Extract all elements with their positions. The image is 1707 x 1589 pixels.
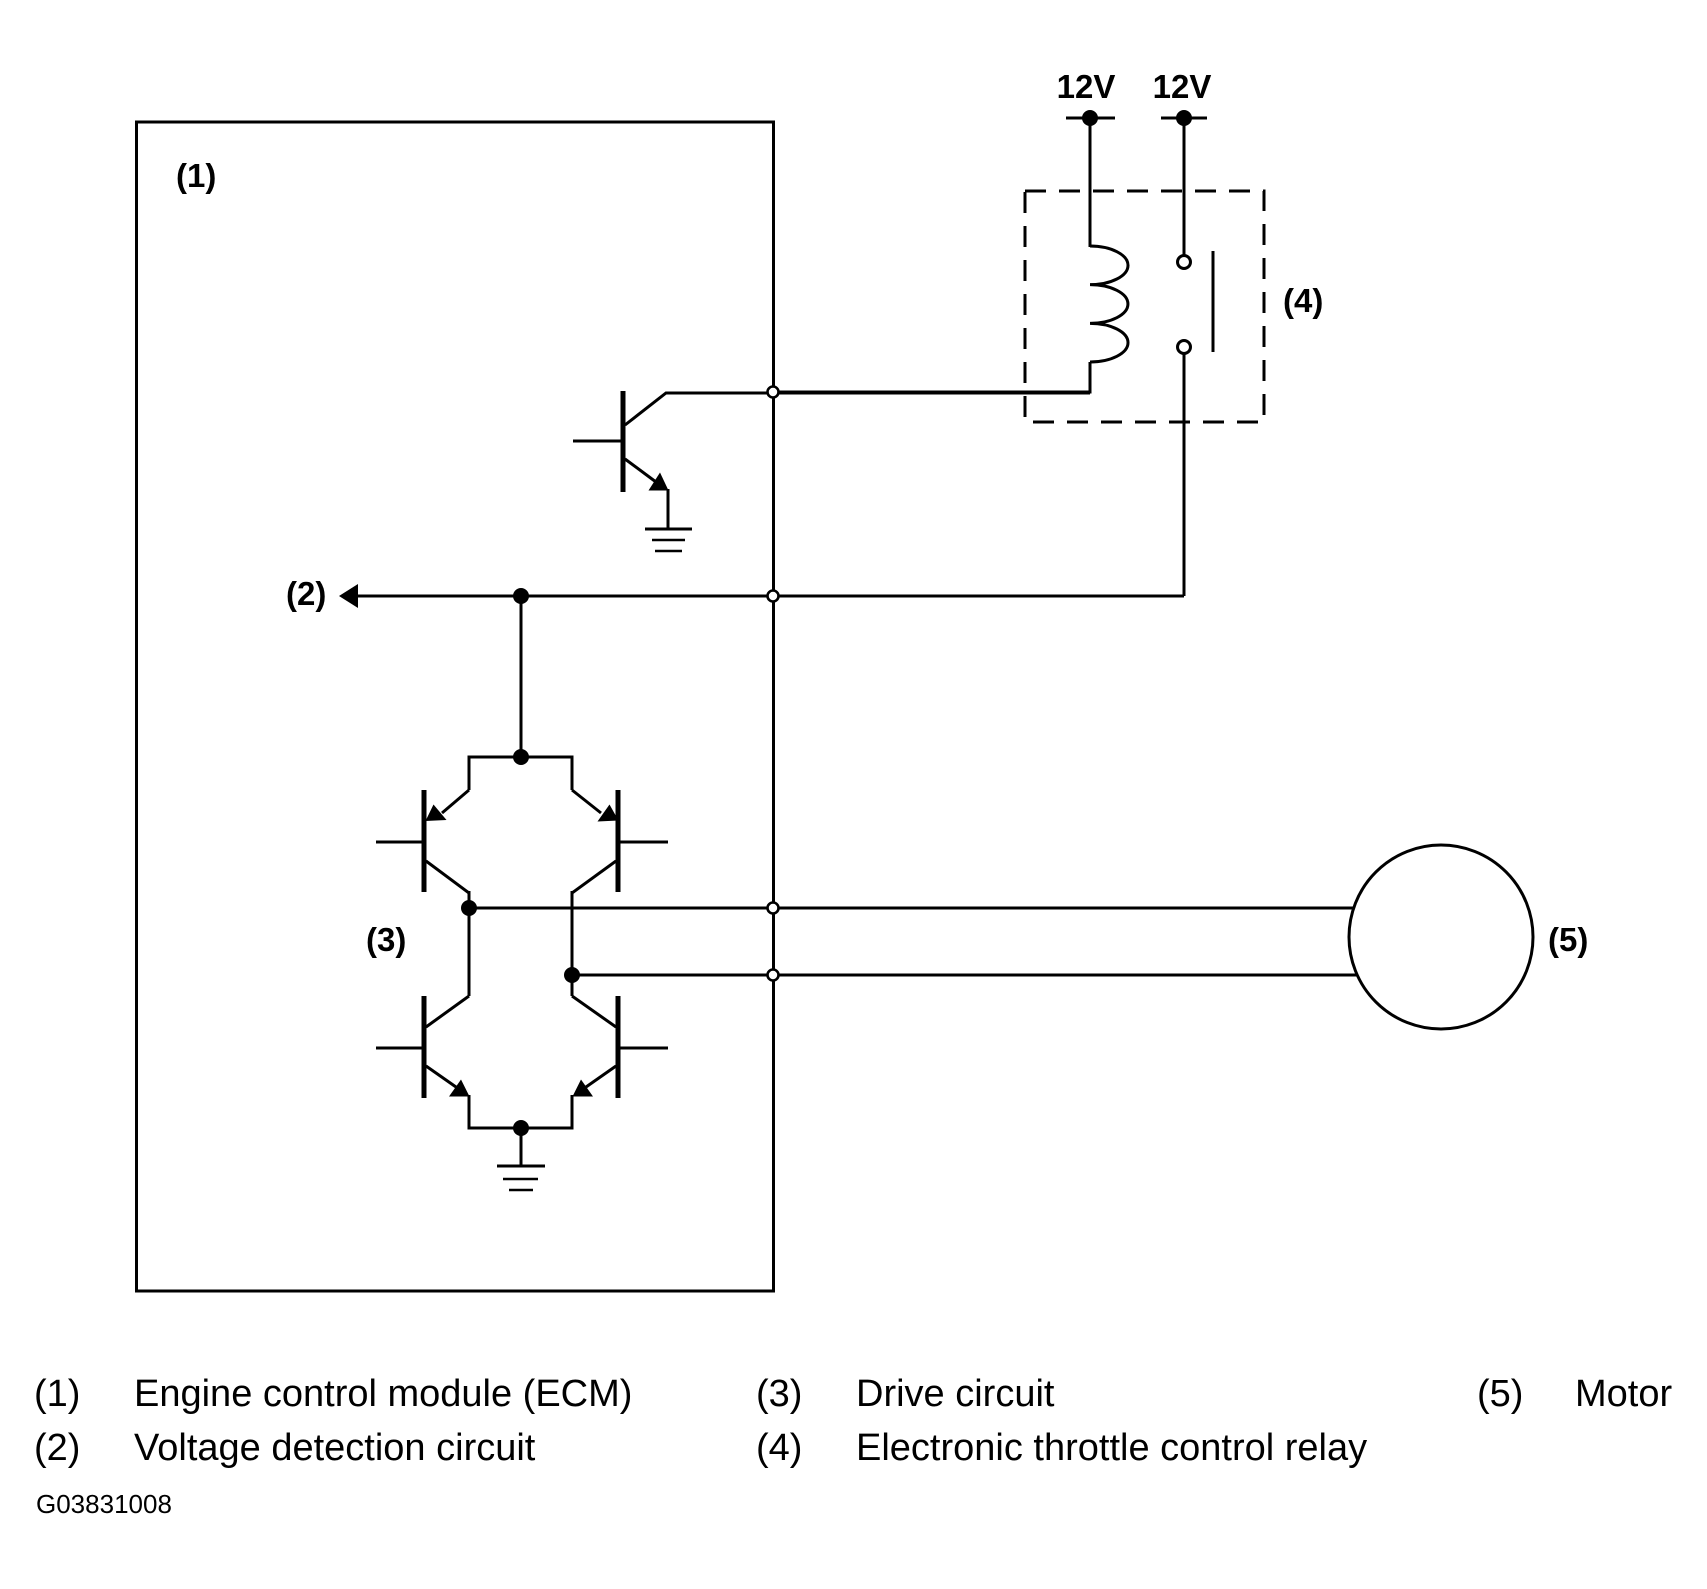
- label (2): [286, 575, 326, 612]
- transistor Q1 base bar: [621, 391, 626, 492]
- svg-text:Drive circuit: Drive circuit: [856, 1373, 1055, 1415]
- label (4): [1283, 282, 1323, 319]
- relay switch terminal circle bottom: [1178, 341, 1191, 354]
- svg-text:(4): (4): [1283, 282, 1323, 319]
- svg-text:Motor: Motor: [1575, 1373, 1672, 1415]
- transistor Q1 collector: [625, 393, 1090, 425]
- transistor Q4 collector: [426, 996, 469, 1027]
- wire top rail right drop: [571, 756, 574, 791]
- arrow to voltage detection circuit (2): [339, 584, 358, 608]
- wire node M1 to motor: [469, 907, 1360, 910]
- svg-text:(5): (5): [1548, 921, 1588, 958]
- transistor Q1 base lead: [573, 440, 625, 443]
- legend item 2 text: [134, 1427, 536, 1469]
- svg-text:(1): (1): [34, 1373, 80, 1415]
- wire bottom node to ground: [520, 1128, 523, 1166]
- H-bridge bottom rail: [469, 1127, 572, 1130]
- svg-text:12V: 12V: [1153, 68, 1212, 105]
- legend item 4 number: [756, 1427, 802, 1469]
- motor M1 circle: [1349, 845, 1533, 1029]
- relay switch terminal circle top: [1178, 256, 1191, 269]
- svg-text:12V: 12V: [1057, 68, 1116, 105]
- transistor Q5 base bar: [616, 996, 621, 1098]
- legend item 4 text: [856, 1427, 1367, 1469]
- wire 12V A to relay coil: [1089, 118, 1092, 247]
- ECM pin circle P4: [768, 970, 779, 981]
- ground G2: [497, 1166, 545, 1190]
- transistor Q5 emitter: [572, 1066, 616, 1130]
- wire Q2 collector to node M1: [468, 891, 471, 996]
- label (3): [366, 921, 406, 958]
- svg-text:Electronic throttle control re: Electronic throttle control relay: [856, 1427, 1367, 1469]
- transistor Q3 base bar: [616, 790, 621, 892]
- wire Q3 collector to node M2: [571, 891, 574, 996]
- wire node A down to H-bridge: [520, 596, 523, 757]
- transistor Q3 emitter: [572, 790, 619, 822]
- wire node A horizontal run: [344, 595, 1184, 598]
- transistor Q1 emitter: [625, 459, 669, 529]
- figure code G03831008: [36, 1489, 172, 1519]
- wire node M2 to motor: [572, 974, 1360, 977]
- svg-text:(3): (3): [756, 1373, 802, 1415]
- ground G1: [645, 529, 692, 551]
- 12V terminal dot B: [1161, 110, 1207, 126]
- transistor Q2 emitter: [426, 790, 470, 821]
- svg-text:(2): (2): [34, 1427, 80, 1469]
- wire relay coil bottom to ECM pin 1: [773, 362, 1090, 392]
- H-bridge bottom node dot: [513, 1120, 529, 1136]
- transistor Q4 base lead: [376, 1047, 426, 1050]
- svg-text:Voltage detection circuit: Voltage detection circuit: [134, 1427, 536, 1469]
- transistor Q4 emitter: [426, 1066, 470, 1130]
- 12V supply label B: [1153, 68, 1212, 105]
- relay dashed box K1: [1025, 191, 1264, 422]
- relay coil L1: [1090, 246, 1128, 362]
- 12V supply label A: [1057, 68, 1116, 105]
- 12V terminal dot A: [1066, 110, 1115, 126]
- transistor Q2 collector: [426, 861, 469, 893]
- transistor Q2 base lead: [376, 841, 426, 844]
- svg-text:(5): (5): [1477, 1373, 1523, 1415]
- node M2 dot: [564, 967, 580, 983]
- legend item 3 text: [856, 1373, 1055, 1415]
- legend item 5 text: [1575, 1373, 1672, 1415]
- H-bridge top node dot: [513, 749, 529, 765]
- svg-text:Engine control module (ECM): Engine control module (ECM): [134, 1373, 632, 1415]
- transistor Q3 collector: [572, 861, 616, 893]
- transistor Q5 base lead: [616, 1047, 668, 1050]
- svg-text:(2): (2): [286, 575, 326, 612]
- H-bridge top rail: [469, 756, 572, 759]
- legend item 5 number: [1477, 1373, 1523, 1415]
- transistor Q3 base lead: [616, 841, 668, 844]
- ECM pin circle P1: [768, 387, 779, 398]
- node M1 dot: [461, 900, 477, 916]
- legend item 1 number: [34, 1373, 80, 1415]
- junction node A dot: [513, 588, 529, 604]
- svg-text:(3): (3): [366, 921, 406, 958]
- transistor Q2 base bar: [422, 790, 427, 892]
- legend item 3 number: [756, 1373, 802, 1415]
- label (5): [1548, 921, 1588, 958]
- wire top rail left drop: [468, 756, 471, 791]
- transistor Q4 base bar: [422, 996, 427, 1098]
- legend item 1 text: [134, 1373, 632, 1415]
- legend item 2 number: [34, 1427, 80, 1469]
- label (1): [176, 157, 216, 194]
- svg-text:(1): (1): [176, 157, 216, 194]
- ECM pin circle P2: [768, 591, 779, 602]
- ECM box U1 (engine control module): [137, 122, 774, 1291]
- wire 12V B to relay switch: [1183, 118, 1186, 262]
- relay switch contact bar: [1212, 251, 1215, 352]
- ECM pin circle P3: [768, 903, 779, 914]
- svg-text:(4): (4): [756, 1427, 802, 1469]
- transistor Q5 collector: [572, 996, 616, 1027]
- svg-text:G03831008: G03831008: [36, 1489, 172, 1519]
- wire relay switch to node A run: [1183, 347, 1186, 596]
